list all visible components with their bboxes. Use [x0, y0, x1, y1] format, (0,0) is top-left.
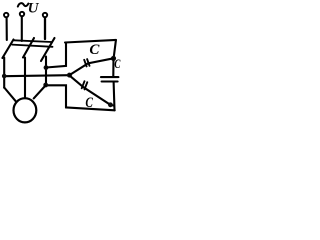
wire: phase 1 horizontal to delta vertex	[4, 75, 69, 76]
capacitor C1 plate b	[87, 59, 89, 66]
source label ~U	[18, 0, 40, 16]
capacitor C3 plate a	[82, 81, 85, 88]
terminal 3	[43, 13, 47, 17]
wire: C2 bottom plate to bank bottom corner	[113, 82, 116, 111]
switch blade pole 1	[2, 40, 13, 59]
wire: terminal 2 to switch	[21, 17, 23, 41]
capacitor C1 plate a	[84, 60, 86, 67]
wire: phase 3 vertical	[45, 57, 47, 86]
wire: terminal 1 to switch	[6, 18, 8, 40]
terminal 1	[4, 13, 8, 17]
wire: delta upper diagonal	[69, 58, 113, 75]
wire: right edge to C2 top plate	[112, 58, 114, 76]
svg-text:U: U	[28, 0, 40, 16]
capacitor C3 plate b	[85, 82, 88, 89]
wire: bank top edge	[65, 40, 116, 43]
node: phase 3 tap to capacitor bank	[44, 65, 49, 70]
capacitor C2 bottom plate	[102, 80, 118, 82]
node: delta left vertex	[67, 73, 72, 78]
svg-text:C: C	[89, 42, 100, 58]
switch blade pole 2	[23, 38, 34, 58]
switch blade pole 3	[41, 38, 55, 61]
wire: terminal 3 to switch	[44, 18, 46, 39]
switch gang bar lower line	[12, 45, 53, 47]
node: phase 1 tap	[2, 74, 7, 79]
wire: bank bottom-left corner to motor wire	[46, 85, 66, 107]
terminal 2	[20, 12, 24, 16]
node: top of capacitor C2 column	[111, 56, 116, 61]
node: lower diagonal to right edge	[108, 102, 113, 107]
svg-text:C: C	[85, 94, 93, 111]
wire: bank bottom edge	[66, 107, 115, 110]
capacitor C2 top plate	[101, 76, 118, 78]
svg-text:C: C	[114, 58, 121, 72]
wire: phase 3 to bank top-left corner	[46, 43, 66, 68]
wire: bank right edge upper	[114, 40, 116, 58]
switch gang bar upper line	[14, 40, 52, 42]
wire: motor lead right	[34, 86, 46, 99]
wire: delta lower diagonal	[69, 75, 114, 105]
wire: motor lead left	[4, 88, 16, 102]
node: phase 3 / motor / bank junction	[43, 83, 48, 88]
motor M	[14, 98, 37, 122]
wire: phase 1 vertical	[3, 58, 5, 88]
wire: phase 2 vertical to motor	[24, 58, 26, 99]
